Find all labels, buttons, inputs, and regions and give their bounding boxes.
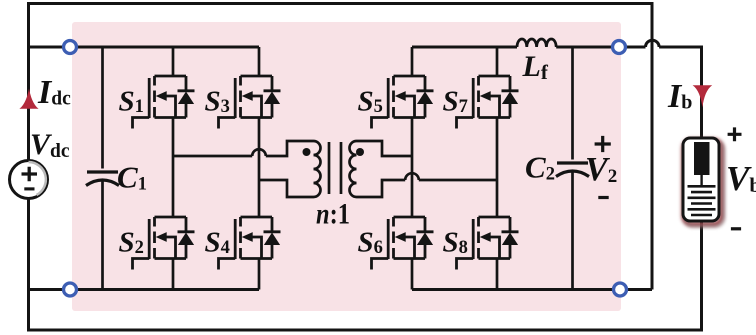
svg-text:Vdc: Vdc [30, 128, 70, 162]
svg-text:n:1: n:1 [316, 197, 350, 230]
svg-text:Idc: Idc [37, 74, 71, 111]
svg-text:Ib: Ib [667, 78, 692, 115]
svg-text:Vb: Vb [726, 159, 756, 198]
